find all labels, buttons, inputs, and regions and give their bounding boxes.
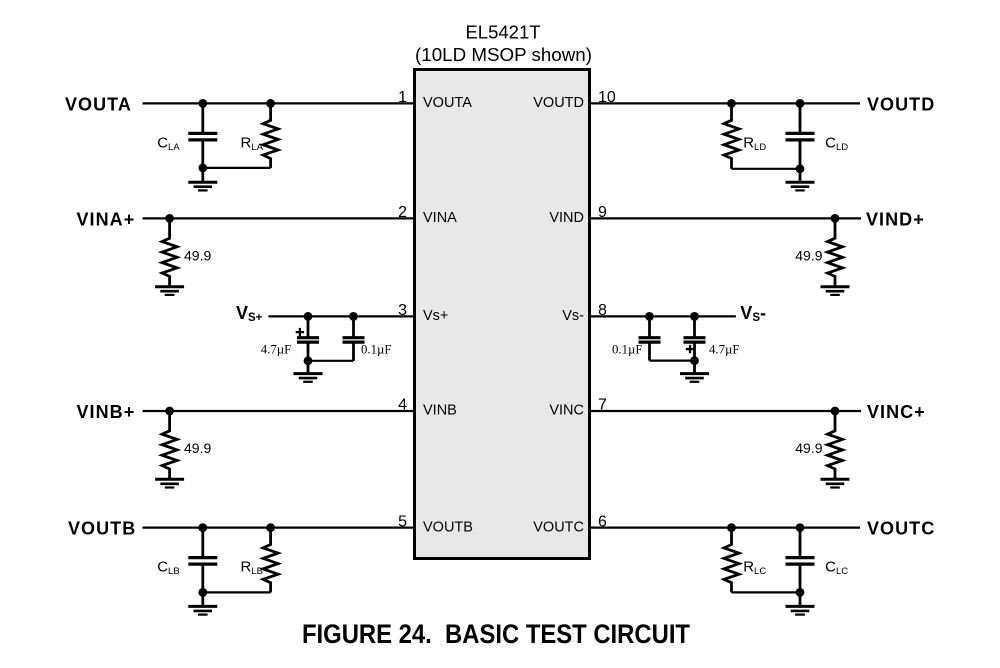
svg-text:VINC: VINC xyxy=(549,403,584,419)
node VOUTC-RLC junction xyxy=(727,523,736,532)
svg-text:VS+: VS+ xyxy=(236,303,263,324)
svg-text:VOUTD: VOUTD xyxy=(867,94,935,114)
capacitor value 4.7uF (VS-) xyxy=(709,342,740,356)
resistor 49.9 (VINB+) xyxy=(162,411,177,479)
pin number 2 xyxy=(398,204,407,221)
pin name VINC (right) xyxy=(549,403,584,419)
svg-text:FIGURE 24. BASIC TEST CIRCUIT: FIGURE 24. BASIC TEST CIRCUIT xyxy=(302,619,690,649)
net label VOUTA xyxy=(65,94,132,114)
svg-text:VINB: VINB xyxy=(423,403,457,419)
wire VINA+ net xyxy=(143,217,415,219)
resistor value 49.9 (VINC+) xyxy=(795,440,822,456)
net label VS- xyxy=(740,303,766,324)
capacitor CLC xyxy=(786,528,815,593)
wire VINC+ net xyxy=(590,410,861,412)
resistor value 49.9 (VINA+) xyxy=(184,247,211,263)
resistor label RLD xyxy=(743,134,766,153)
capacitor label CLB xyxy=(157,559,179,578)
svg-text:RLC: RLC xyxy=(743,559,766,578)
capacitor CLB xyxy=(188,528,217,593)
pin name Vs+ (left) xyxy=(423,308,448,324)
capacitor CLA xyxy=(188,103,217,167)
node VOUTC-CLC junction xyxy=(796,523,805,532)
resistor RLC xyxy=(724,528,739,593)
capacitor 0.1uF (VS+) xyxy=(343,316,365,360)
svg-text:49.9: 49.9 xyxy=(184,247,211,263)
pin number 8 xyxy=(598,302,607,319)
pin number 10 xyxy=(598,89,616,106)
capacitor value 0.1uF (VS+) xyxy=(361,343,392,357)
net label VINC+ xyxy=(867,402,926,422)
resistor 49.9 (VINC+) xyxy=(828,411,843,479)
ground below VINA+ resistor xyxy=(155,286,184,295)
resistor 49.9 (VIND+) xyxy=(828,218,843,286)
svg-text:VINA+: VINA+ xyxy=(77,209,136,229)
svg-text:VOUTB: VOUTB xyxy=(423,519,473,535)
wire VINB+ net xyxy=(143,410,415,412)
capacitor label CLD xyxy=(825,134,848,153)
svg-text:VOUTC: VOUTC xyxy=(867,519,935,539)
svg-text:VOUTA: VOUTA xyxy=(65,94,132,114)
svg-text:49.9: 49.9 xyxy=(795,440,822,456)
pin number 4 xyxy=(398,397,407,414)
net label VOUTC xyxy=(867,519,935,539)
resistor label RLC xyxy=(743,559,766,578)
ground below VINB+ resistor xyxy=(155,479,184,488)
svg-text:0.1µF: 0.1µF xyxy=(361,343,392,357)
svg-text:VOUTB: VOUTB xyxy=(68,519,136,539)
resistor value 49.9 (VIND+) xyxy=(795,247,822,263)
capacitor 4.7uF (VS-) xyxy=(684,316,706,360)
pin number 9 xyxy=(598,204,607,221)
net label VIND+ xyxy=(866,209,925,229)
wire VOUTA net xyxy=(143,102,415,104)
resistor 49.9 (VINA+) xyxy=(162,218,177,286)
svg-text:VS-: VS- xyxy=(740,303,766,324)
pin name VINB (left) xyxy=(423,403,457,419)
pin name VINA (left) xyxy=(423,210,457,226)
net label VINB+ xyxy=(77,402,136,422)
capacitor CLD xyxy=(786,103,815,168)
node CLB bottom junction xyxy=(198,588,207,597)
svg-text:4.7µF: 4.7µF xyxy=(709,342,740,356)
resistor value 49.9 (VINB+) xyxy=(184,440,211,456)
node VOUTA-RLA junction xyxy=(266,99,275,108)
pin name VOUTB (left) xyxy=(423,519,473,535)
svg-text:4.7µF: 4.7µF xyxy=(261,343,292,357)
resistor RLA xyxy=(263,103,278,167)
resistor RLD xyxy=(724,103,739,168)
svg-text:VOUTA: VOUTA xyxy=(423,95,472,111)
svg-text:VOUTC: VOUTC xyxy=(533,519,584,535)
wire VS- net xyxy=(590,315,736,317)
node VS- C1 junction xyxy=(645,312,654,321)
svg-text:CLC: CLC xyxy=(825,559,848,578)
svg-text:VOUTD: VOUTD xyxy=(533,95,584,111)
pin number 1 xyxy=(398,89,407,106)
wire VIND+ net xyxy=(590,217,861,219)
wire RLB bottom to CLB bottom xyxy=(203,591,271,593)
net label VS+ xyxy=(236,303,263,324)
node VOUTB-RLB junction xyxy=(266,523,275,532)
node VS+ C2 junction xyxy=(349,312,358,321)
capacitor label CLA xyxy=(157,134,180,153)
resistor RLB xyxy=(263,528,278,593)
node VIND+ junction xyxy=(831,214,840,223)
pin name VOUTA (left) xyxy=(423,95,472,111)
svg-text:49.9: 49.9 xyxy=(184,440,211,456)
svg-text:RLA: RLA xyxy=(241,134,264,153)
ground below VS- caps xyxy=(680,361,709,382)
ground below VINC+ resistor xyxy=(821,479,850,488)
svg-text:VINA: VINA xyxy=(423,210,457,226)
node VS+ C1 junction xyxy=(304,312,313,321)
net label VOUTB xyxy=(68,519,136,539)
svg-text:RLD: RLD xyxy=(743,134,766,153)
IC title EL5421T xyxy=(465,22,540,43)
node VOUTA-CLA junction xyxy=(198,99,207,108)
node VS- C2 junction xyxy=(690,312,699,321)
capacitor label CLC xyxy=(825,559,848,578)
pin number 6 xyxy=(598,513,607,530)
node VINC+ junction xyxy=(831,407,840,416)
plus polarity mark (VS- cap) xyxy=(686,345,694,353)
pin name VIND (right) xyxy=(549,210,584,226)
capacitor value 4.7uF (VS+) xyxy=(261,343,292,357)
svg-text:49.9: 49.9 xyxy=(795,247,822,263)
node VOUTB-CLB junction xyxy=(198,523,207,532)
figure caption xyxy=(302,619,690,649)
svg-text:CLA: CLA xyxy=(157,134,180,153)
ground below VIND+ resistor xyxy=(821,286,850,295)
capacitor value 0.1uF (VS-) xyxy=(612,342,643,356)
op-amp IC U1 EL5421T body xyxy=(415,70,590,559)
capacitor 0.1uF (VS-) xyxy=(639,316,661,360)
wire 0.1uF bottom to 4.7uF bottom (VS+) xyxy=(308,360,354,362)
wire RLC bottom to CLC bottom xyxy=(732,591,801,593)
svg-text:(10LD MSOP shown): (10LD MSOP shown) xyxy=(415,44,592,65)
svg-text:0.1µF: 0.1µF xyxy=(612,342,643,356)
node VINA+ junction xyxy=(165,214,174,223)
wire VS+ net xyxy=(268,315,414,317)
pin number 3 xyxy=(398,302,407,319)
node CLA bottom junction xyxy=(198,164,207,173)
node VOUTD-RLD junction xyxy=(727,99,736,108)
node VOUTD-CLD junction xyxy=(796,99,805,108)
ground below CLC xyxy=(786,592,815,614)
svg-text:RLB: RLB xyxy=(241,559,263,578)
node CLC bottom junction xyxy=(796,588,805,597)
net label VOUTD xyxy=(867,94,935,114)
svg-text:VINB+: VINB+ xyxy=(77,402,136,422)
wire RLA bottom to CLA bottom xyxy=(203,167,271,169)
resistor label RLA xyxy=(241,134,264,153)
ground below VS+ caps xyxy=(294,361,323,382)
pin name VOUTD (right) xyxy=(533,95,584,111)
wire VOUTD net xyxy=(590,102,860,104)
ground below CLA xyxy=(188,168,217,191)
pin name VOUTC (right) xyxy=(533,519,584,535)
resistor label RLB xyxy=(241,559,263,578)
wire 0.1uF bottom to 4.7uF bottom (VS-) xyxy=(650,360,695,362)
ground below CLD xyxy=(786,169,815,191)
node CLD bottom junction xyxy=(796,164,805,173)
svg-text:CLB: CLB xyxy=(157,559,179,578)
ground below CLB xyxy=(188,592,217,614)
svg-text:VINC+: VINC+ xyxy=(867,402,926,422)
pin name Vs- (right) xyxy=(562,308,584,324)
svg-text:Vs-: Vs- xyxy=(562,308,584,324)
capacitor 4.7uF (VS+) xyxy=(297,316,319,360)
IC subtitle package xyxy=(415,44,592,65)
svg-text:EL5421T: EL5421T xyxy=(465,22,540,43)
net label VINA+ xyxy=(77,209,136,229)
wire RLD bottom to CLD bottom xyxy=(732,168,801,170)
svg-text:CLD: CLD xyxy=(825,134,848,153)
pin number 5 xyxy=(398,513,407,530)
wire VOUTC net xyxy=(590,526,860,528)
wire VOUTB net xyxy=(143,526,415,528)
plus polarity mark (VS+ cap) xyxy=(296,328,304,336)
node VS+ ground junction xyxy=(304,356,313,365)
svg-text:VIND: VIND xyxy=(549,210,584,226)
svg-text:VIND+: VIND+ xyxy=(866,209,925,229)
node VS- ground junction xyxy=(690,356,699,365)
svg-text:Vs+: Vs+ xyxy=(423,308,448,324)
pin number 7 xyxy=(598,397,607,414)
node VINB+ junction xyxy=(165,407,174,416)
